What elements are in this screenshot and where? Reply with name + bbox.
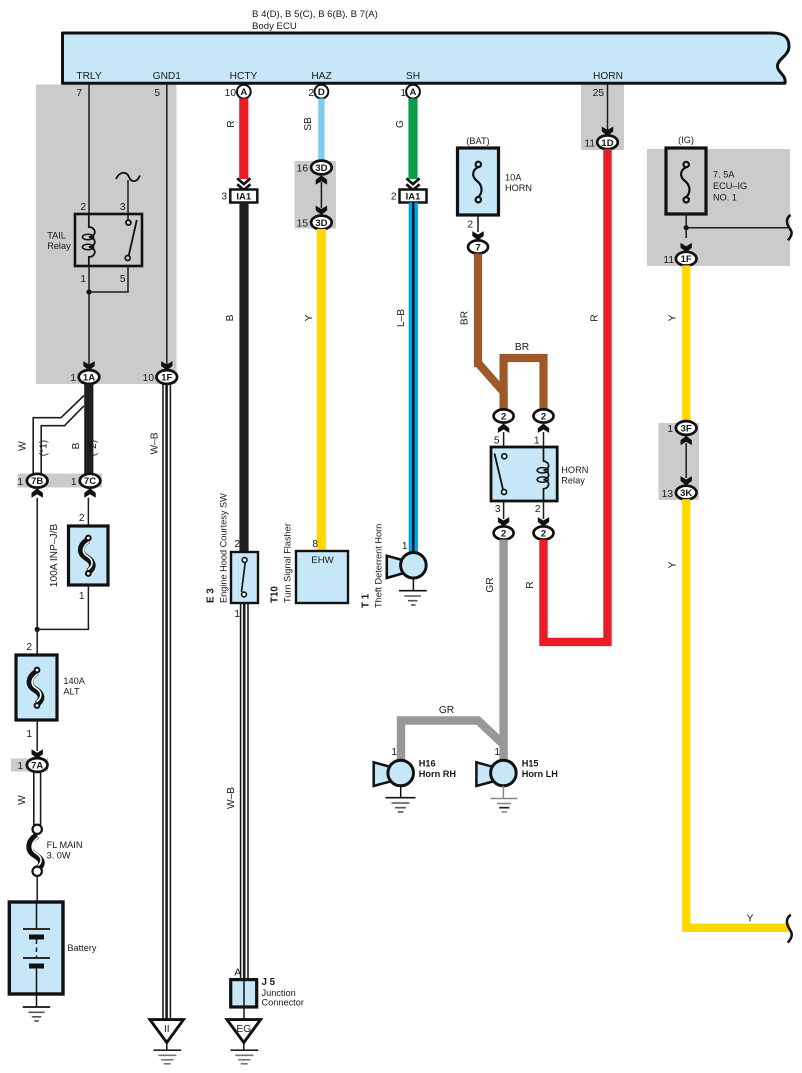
ground battery [36, 994, 38, 1007]
break squiggle IG [787, 215, 792, 240]
svg-text:T 1: T 1 [361, 593, 372, 608]
svg-text:100A INP–J/B: 100A INP–J/B [49, 524, 60, 588]
svg-text:140A: 140A [63, 676, 85, 686]
svg-text:5: 5 [494, 436, 500, 447]
wire GR relay to horns [499, 540, 507, 761]
svg-text:GND1: GND1 [153, 71, 182, 82]
svg-text:2: 2 [80, 202, 86, 213]
fuse 7.5A ECU-IG NO.1 [666, 148, 706, 214]
ground H16 [400, 786, 402, 798]
fuse 140A ALT [16, 655, 57, 720]
wire 7B down to junction [36, 498, 38, 630]
svg-text:Theft Deterrent Horn: Theft Deterrent Horn [374, 524, 384, 608]
arrow up into oval pin5 [498, 424, 509, 433]
svg-text:5: 5 [120, 274, 126, 285]
svg-text:1D: 1D [601, 138, 613, 149]
arrow down into 3K [681, 476, 692, 485]
svg-text:H15: H15 [522, 759, 539, 769]
svg-text:2: 2 [501, 529, 506, 540]
arrow up into 3F [681, 436, 692, 445]
svg-text:3D: 3D [315, 218, 327, 229]
horn T1 Theft Deterrent Horn [387, 556, 404, 578]
wire B thick to E3 [239, 203, 248, 553]
wire relay pin 3 down [503, 501, 505, 519]
svg-text:EG: EG [236, 1024, 251, 1035]
junction connector J5 [231, 980, 257, 1007]
svg-text:3K: 3K [680, 488, 692, 499]
svg-text:J 5: J 5 [262, 977, 276, 988]
arrow down into oval pin3 [498, 517, 509, 526]
svg-text:EHW: EHW [311, 555, 334, 566]
svg-text:16: 16 [297, 164, 309, 175]
svg-text:HAZ: HAZ [311, 71, 331, 82]
relay HORN box [491, 447, 557, 501]
arrow down into 3D lower [316, 206, 327, 215]
svg-text:Body ECU: Body ECU [252, 21, 297, 32]
shade: 3D connector band [295, 161, 337, 229]
svg-text:2: 2 [391, 192, 397, 203]
svg-text:Junction: Junction [262, 988, 296, 998]
chevron arrow into IA1 SH [406, 178, 419, 190]
svg-text:Horn LH: Horn LH [522, 769, 559, 779]
svg-text:1: 1 [234, 609, 240, 620]
svg-text:IA1: IA1 [236, 192, 252, 203]
svg-text:1: 1 [667, 424, 673, 435]
fusible link FL MAIN [33, 825, 42, 834]
wire W-B from 1F to II ground [162, 384, 164, 1019]
svg-text:1: 1 [70, 373, 76, 384]
svg-text:GR: GR [485, 577, 496, 592]
wire 7C down to J/B [87, 498, 89, 526]
wire R HCTY [239, 99, 248, 180]
Body ECU block [63, 33, 790, 83]
wire J5 to EG [243, 1007, 245, 1020]
shade: HORN pin band [581, 85, 624, 151]
arrow into 1A [83, 361, 94, 370]
svg-text:R: R [525, 581, 536, 588]
svg-text:FL MAIN: FL MAIN [47, 840, 83, 850]
svg-text:25: 25 [593, 88, 605, 99]
svg-text:1: 1 [402, 541, 408, 552]
svg-text:2: 2 [535, 504, 541, 515]
svg-text:7. 5A: 7. 5A [713, 170, 735, 180]
wire FL MAIN to battery [36, 876, 38, 902]
svg-text:L–B: L–B [396, 309, 407, 327]
svg-text:ECU–IG: ECU–IG [713, 181, 747, 191]
svg-text:2: 2 [26, 642, 32, 653]
svg-text:Y: Y [747, 914, 754, 925]
svg-text:1: 1 [80, 274, 86, 285]
connector oval 2 relay pin1 [534, 409, 554, 422]
svg-text:1: 1 [71, 477, 77, 488]
svg-text:A: A [410, 87, 417, 98]
svg-text:HORN: HORN [561, 465, 588, 475]
wire BR diagonal to relay pin 5 [478, 363, 504, 410]
svg-text:H16: H16 [419, 759, 436, 769]
svg-text:3: 3 [495, 504, 501, 515]
svg-text:B: B [225, 314, 236, 321]
svg-text:Y: Y [304, 314, 315, 321]
arrow into 1F [161, 361, 172, 370]
connector oval 2 below pin2 [534, 526, 554, 539]
horn H15 Horn LH [476, 762, 494, 786]
svg-text:HCTY: HCTY [230, 71, 258, 82]
svg-text:BR: BR [515, 342, 529, 353]
svg-text:B: B [71, 442, 82, 449]
svg-text:10: 10 [225, 88, 237, 99]
svg-text:5: 5 [154, 88, 160, 99]
connector oval 2 relay pin5 [494, 409, 514, 422]
svg-text:1: 1 [534, 436, 540, 447]
svg-text:D: D [318, 87, 325, 98]
relay HORN switch [502, 454, 507, 459]
ground triangle EG [227, 1020, 261, 1043]
wire GND1 pin5 to 1F [166, 85, 168, 372]
svg-text:HORN: HORN [505, 183, 532, 193]
svg-text:2: 2 [541, 529, 546, 540]
svg-text:TAIL: TAIL [47, 231, 66, 241]
svg-text:10A: 10A [505, 173, 522, 183]
svg-text:Battery: Battery [67, 943, 97, 953]
wire relay pin5 down and left [89, 266, 128, 292]
fuse 10A HORN [458, 148, 499, 215]
svg-text:2: 2 [541, 412, 546, 423]
svg-text:Horn RH: Horn RH [419, 769, 457, 779]
svg-text:7: 7 [475, 243, 480, 254]
svg-text:(*1): (*1) [39, 440, 50, 456]
wire SB HAZ [318, 99, 324, 163]
svg-text:3: 3 [221, 192, 227, 203]
svg-text:(*2): (*2) [88, 440, 99, 456]
chevron arrow into IA1 [237, 178, 250, 190]
wire BR bridge to relay pin 1 [504, 358, 544, 412]
svg-text:TRLY: TRLY [76, 71, 101, 82]
wire between 3D connectors [320, 182, 322, 208]
relay TAIL coil [89, 214, 95, 266]
svg-text:Relay: Relay [47, 241, 71, 251]
wire W branch to 7B [33, 396, 84, 475]
svg-text:1F: 1F [161, 373, 172, 384]
arrow up into 3D upper [316, 175, 327, 184]
svg-text:W: W [17, 795, 28, 805]
wire between 3F and 3K [685, 443, 687, 478]
arrow into 7A [32, 749, 43, 758]
arrow into 1F IG [681, 243, 692, 252]
svg-text:W–B: W–B [150, 432, 161, 454]
wire TRLY pin7 to relay [88, 85, 90, 215]
svg-text:Relay: Relay [561, 475, 585, 485]
svg-text:1A: 1A [83, 373, 95, 384]
fuse 100A INP-J/B [69, 526, 109, 585]
wire G SH [408, 99, 417, 180]
wire IG branch right [686, 227, 789, 229]
svg-text:3. 0W: 3. 0W [47, 851, 71, 861]
svg-text:Y: Y [668, 314, 679, 321]
svg-text:11: 11 [663, 255, 674, 266]
svg-text:E 3: E 3 [206, 588, 217, 603]
svg-text:HORN: HORN [593, 71, 623, 82]
wire L-B to theft horn [409, 203, 418, 555]
arrow up into 7B [32, 488, 43, 497]
svg-text:3F: 3F [681, 424, 692, 435]
flasher T10 EHW box [296, 551, 348, 603]
ground H15 [502, 786, 504, 799]
relay TAIL switch [126, 220, 131, 225]
svg-text:1: 1 [26, 729, 32, 740]
wire R relay pin2 to ECU [544, 540, 608, 642]
wire W-B from E3 to J5 [240, 603, 242, 980]
svg-text:II: II [164, 1024, 170, 1035]
wire Y HAZ to flasher [317, 229, 326, 551]
svg-text:R: R [590, 314, 601, 321]
break squiggle Y [787, 915, 792, 943]
wire ALT to 7A [36, 720, 38, 751]
svg-text:2: 2 [308, 88, 314, 99]
svg-text:A: A [240, 87, 247, 98]
svg-text:(BAT): (BAT) [466, 136, 489, 146]
svg-text:10: 10 [143, 373, 155, 384]
connector oval 2 below pin3 [494, 526, 514, 539]
svg-text:W: W [18, 441, 29, 451]
svg-text:NO. 1: NO. 1 [713, 193, 737, 203]
svg-text:3D: 3D [315, 163, 327, 174]
wire Y lower with elbow [686, 499, 790, 928]
svg-text:15: 15 [297, 219, 309, 230]
horn H16 Horn RH [374, 762, 392, 786]
svg-text:11: 11 [584, 139, 595, 150]
shade: 3F 3K band [659, 423, 700, 500]
shade: 7A band [11, 759, 48, 772]
svg-text:2: 2 [234, 539, 240, 550]
svg-text:1: 1 [17, 477, 23, 488]
svg-text:Engine Hood Courtesy SW: Engine Hood Courtesy SW [219, 493, 229, 603]
svg-text:ALT: ALT [63, 687, 80, 697]
wire B thick 1A to 7C [84, 384, 93, 475]
arrow into oval 7 [472, 231, 483, 240]
arrow down into oval pin2 [538, 517, 549, 526]
svg-text:7A: 7A [31, 761, 43, 772]
battery [9, 902, 63, 994]
relay TAIL box [75, 214, 142, 266]
wire fuse down [685, 214, 687, 238]
junction dot IG [684, 225, 689, 230]
wire W from 7A [33, 772, 35, 825]
wire relay pin1 down [88, 266, 90, 371]
svg-text:1: 1 [79, 591, 85, 602]
shade: TAIL relay area [36, 85, 177, 385]
svg-text:Turn Signal Flasher: Turn Signal Flasher [283, 523, 293, 603]
wire R ECU HORN down [603, 149, 611, 646]
junction dot ALT [35, 627, 40, 632]
svg-text:A: A [234, 968, 241, 979]
wire fuse to oval 7 [477, 215, 479, 232]
svg-text:GR: GR [439, 705, 454, 716]
svg-text:W–B: W–B [226, 787, 237, 809]
wire into relay pin 1 [543, 432, 545, 447]
svg-text:2: 2 [467, 220, 473, 231]
svg-text:8: 8 [312, 539, 318, 550]
svg-text:(IG): (IG) [678, 135, 694, 145]
switch E3 Engine Hood Courtesy SW [231, 552, 258, 603]
svg-text:7: 7 [76, 88, 82, 99]
svg-text:Connector: Connector [262, 998, 304, 1008]
svg-text:SH: SH [406, 71, 420, 82]
ignition switch squiggle above pin 3 [116, 173, 140, 181]
svg-text:1: 1 [494, 747, 500, 758]
svg-text:1F: 1F [681, 254, 692, 265]
wire BR from fuse down [474, 254, 482, 368]
arrow up into 7C [84, 488, 95, 497]
svg-text:BR: BR [460, 311, 471, 325]
wire J/B pin1 to junction [37, 585, 88, 629]
svg-text:R: R [226, 120, 237, 127]
shade: IG fuse area [647, 149, 790, 266]
svg-text:1: 1 [391, 747, 397, 758]
shade: 7B 7C band [18, 474, 103, 488]
wire relay pin 2 down [543, 501, 545, 519]
svg-text:2: 2 [79, 513, 85, 524]
connector oval 7 [468, 240, 488, 253]
svg-text:3: 3 [120, 202, 126, 213]
ground T1 [412, 578, 414, 591]
relay HORN coil [544, 447, 549, 501]
wire Y upper [682, 265, 690, 421]
wire GR branch to H16 [401, 721, 504, 761]
svg-text:7C: 7C [84, 476, 96, 487]
ground triangle II [150, 1020, 184, 1043]
svg-text:2: 2 [501, 412, 506, 423]
arrow up into oval pin1 [538, 424, 549, 433]
svg-text:T10: T10 [270, 586, 281, 603]
wire HORN pin 25 down [607, 85, 609, 131]
wire into relay pin 5 [503, 432, 505, 447]
arrow into 1D [602, 127, 613, 136]
svg-text:SB: SB [303, 117, 314, 131]
svg-text:13: 13 [662, 489, 674, 500]
svg-text:G: G [395, 120, 406, 128]
svg-text:7B: 7B [31, 476, 43, 487]
svg-text:IA1: IA1 [406, 192, 422, 203]
svg-text:Y: Y [668, 561, 679, 568]
wire junction to ALT [36, 629, 38, 655]
junction dot pin1/pin5 [86, 289, 91, 294]
svg-text:1: 1 [17, 761, 23, 772]
wire squiggle to relay pin 3 [127, 180, 129, 220]
svg-text:B 4(D), B 5(C), B 6(B), B 7(A): B 4(D), B 5(C), B 6(B), B 7(A) [252, 9, 378, 20]
